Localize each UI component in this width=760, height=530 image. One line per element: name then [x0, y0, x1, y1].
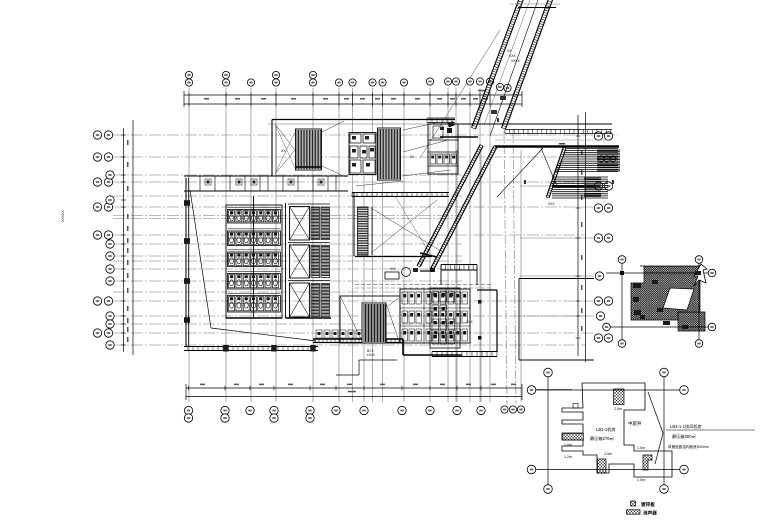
toilet block rows	[226, 196, 282, 318]
dashed utility band	[355, 267, 492, 288]
svg-text:1.0m: 1.0m	[637, 478, 645, 482]
fan lines around S2	[356, 122, 450, 186]
svg-text:LB3-1机房: LB3-1机房	[596, 426, 616, 433]
atrium	[352, 193, 449, 257]
svg-text:XXXX: XXXX	[511, 59, 521, 63]
bottom fixtures row	[316, 330, 362, 338]
corridor inner band	[417, 145, 497, 271]
south wall lower wing	[313, 339, 462, 355]
BR detail texts	[564, 407, 755, 482]
svg-text:±0.00: ±0.00	[367, 353, 375, 357]
fan lines around S1	[275, 121, 346, 177]
walkway junction blobs	[440, 121, 455, 130]
lower stair block	[362, 303, 386, 343]
lobby diagonal wall	[190, 190, 316, 341]
diagonal corridor upper	[472, 0, 560, 136]
right detail hatched plan	[631, 264, 707, 331]
top wing outline	[268, 118, 455, 176]
svg-text:风管底距结构板底600mm: 风管底距结构板底600mm	[668, 444, 709, 449]
step platform below	[336, 349, 397, 375]
lower fixture rooms	[400, 289, 470, 343]
SE terrace	[519, 279, 594, 361]
ramp thin diagonals	[497, 148, 557, 206]
svg-text:XXX: XXX	[390, 267, 397, 271]
BR detail grid	[527, 368, 688, 493]
svg-text:静压箱300㎡: 静压箱300㎡	[672, 433, 697, 440]
svg-text:2.0m: 2.0m	[614, 407, 622, 411]
louver block A dark part	[597, 150, 620, 171]
stair block S1	[296, 129, 322, 170]
svg-text:LB3-1-1排风机房: LB3-1-1排风机房	[670, 423, 702, 430]
corridor axis lines	[420, 30, 516, 404]
elevator shafts	[286, 203, 332, 318]
atrium stair band	[358, 196, 445, 255]
legend	[627, 501, 658, 517]
svg-text:XXX: XXX	[548, 202, 555, 206]
louver block B dark part	[552, 178, 601, 197]
south wall west part	[184, 345, 318, 352]
svg-text:1.0m: 1.0m	[637, 446, 645, 450]
svg-text:消声器: 消声器	[643, 510, 657, 517]
BR detail hatched blocks	[563, 389, 653, 473]
svg-text:1.2m: 1.2m	[564, 455, 572, 459]
left grid bubbles	[93, 131, 114, 349]
BR detail diagonals	[648, 392, 663, 464]
lower ramp room	[340, 296, 400, 343]
grid verticals	[189, 88, 521, 402]
svg-text:XXX: XXX	[509, 54, 517, 58]
east-west walkway	[437, 124, 619, 147]
right detail grid	[603, 256, 716, 348]
tick marks	[497, 118, 614, 184]
atrium south wall	[355, 257, 477, 286]
louver block B	[552, 177, 608, 198]
right grid bubbles	[594, 132, 612, 342]
right dimension lines	[576, 112, 586, 362]
bottom grid bubbles	[184, 386, 572, 422]
bottom dimension lines	[186, 384, 522, 400]
BR detail room outline	[562, 383, 672, 477]
svg-text:静压箱276㎡: 静压箱276㎡	[590, 435, 615, 442]
svg-text:XX: XX	[507, 49, 512, 53]
svg-text:1.0m: 1.0m	[564, 443, 572, 447]
svg-text:XX: XX	[281, 149, 286, 153]
louver block A	[495, 147, 619, 199]
central core block	[349, 133, 376, 175]
margin note	[61, 210, 65, 222]
stair block S2	[378, 128, 401, 180]
svg-text:1.5m: 1.5m	[604, 452, 612, 456]
svg-text:XXX: XXX	[466, 320, 474, 324]
top wing right rooms	[428, 124, 458, 174]
north wall band rooms	[184, 176, 348, 191]
svg-text:XXXXX: XXXXX	[61, 210, 65, 222]
left dimension lines	[121, 120, 133, 355]
svg-text:中庭井: 中庭井	[628, 420, 642, 427]
svg-text:XX: XX	[410, 155, 415, 159]
west wall	[184, 178, 190, 347]
SE room block	[430, 288, 497, 357]
grid horizontals	[113, 135, 618, 345]
svg-text:镀锌板: 镀锌板	[641, 501, 655, 508]
top grid bubbles	[185, 71, 511, 91]
right detail dark marks	[633, 271, 701, 329]
top dimension lines	[184, 90, 522, 107]
